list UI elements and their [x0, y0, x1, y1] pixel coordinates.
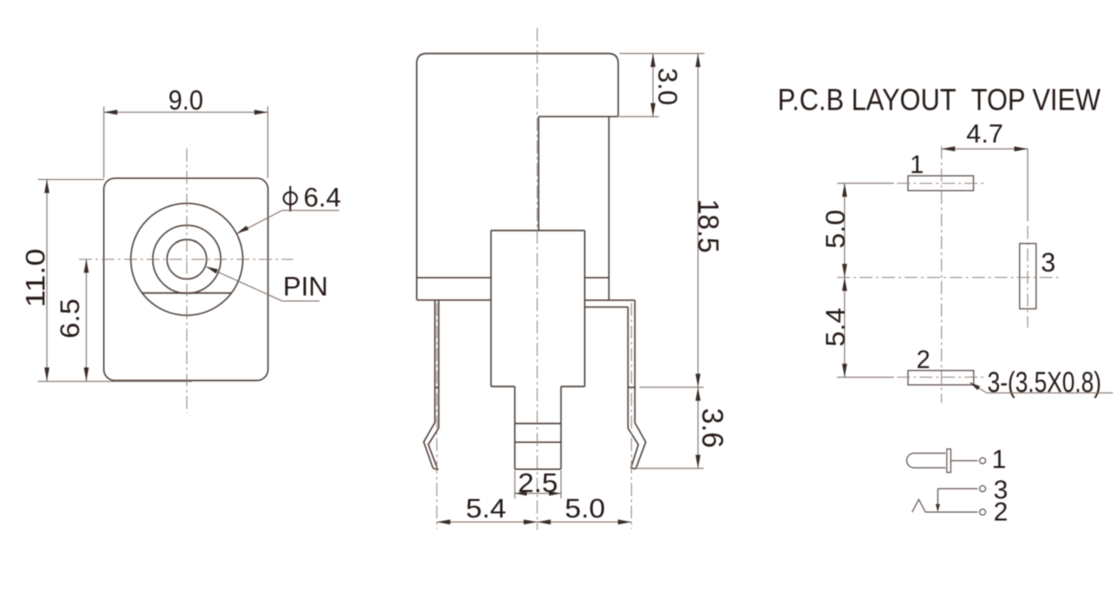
svg-text:9.0: 9.0 — [168, 85, 203, 116]
svg-text:11.0: 11.0 — [21, 249, 51, 308]
svg-text:6.5: 6.5 — [55, 299, 85, 339]
svg-text:PIN: PIN — [283, 272, 328, 302]
svg-text:2: 2 — [916, 346, 930, 374]
svg-text:3.6: 3.6 — [696, 408, 729, 448]
svg-text:6.4: 6.4 — [304, 183, 342, 213]
svg-text:5.4: 5.4 — [821, 308, 851, 347]
svg-text:2: 2 — [994, 497, 1008, 527]
svg-text:1: 1 — [910, 151, 924, 179]
svg-text:3-(3.5X0.8): 3-(3.5X0.8) — [987, 367, 1101, 399]
svg-text:P.C.B LAYOUT TOP VIEW: P.C.B LAYOUT TOP VIEW — [778, 82, 1102, 117]
svg-text:4.7: 4.7 — [966, 121, 1003, 149]
svg-text:5.0: 5.0 — [821, 210, 851, 249]
svg-text:2.5: 2.5 — [518, 468, 558, 498]
svg-text:3: 3 — [1041, 248, 1056, 278]
svg-text:5.0: 5.0 — [565, 494, 606, 524]
svg-text:5.4: 5.4 — [466, 494, 507, 524]
svg-text:3.0: 3.0 — [653, 68, 683, 106]
svg-text:18.5: 18.5 — [692, 199, 724, 253]
svg-text:1: 1 — [992, 444, 1006, 474]
